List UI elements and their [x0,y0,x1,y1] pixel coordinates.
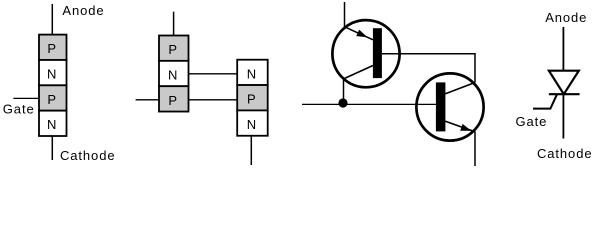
wire: Q1 collector down to junction [343,78,345,103]
wire: gate lead into lower P of PNP stack [136,99,159,101]
wire: anode lead of symbol [562,27,564,71]
wire: cathode lead of NPN stack [250,136,252,165]
wire: Q1 collector diagonal [344,66,374,79]
svg-text:Anode: Anode [545,10,587,25]
N layer of PNP stack [159,61,189,86]
thyristor triangle [549,71,579,95]
wire: Q2 collector diagonal up to Q1 base [445,83,475,94]
wire: anode lead of PNPN stack [51,4,53,35]
wire: Q1 base to Q2 collector (right and down) [382,54,475,83]
svg-text:P: P [168,42,178,57]
svg-text:N: N [168,67,178,82]
svg-text:Gate: Gate [3,102,35,117]
svg-text:P: P [47,41,57,56]
wire: gate rail to Q2 base [302,103,436,105]
transistor Q1 (PNP) circle [332,20,399,87]
junction dot (gate node) [338,98,347,107]
N layer bottom of NPN stack [237,110,268,135]
N layer of PNPN stack [39,60,67,85]
wire: cathode lead of PNPN stack [51,136,53,160]
wire: gate lead of symbol [533,94,557,108]
transistor Q2 (NPN) circle [416,73,483,140]
svg-text:Anode: Anode [62,3,104,18]
P layer top of PNP stack [159,36,189,61]
svg-text:Cathode: Cathode [60,148,115,163]
svg-text:N: N [47,117,57,132]
Q1 emitter arrowhead (points into base bar) [356,30,367,38]
wire: cathode lead of symbol [562,94,564,138]
P layer bottom of PNP stack [159,86,189,111]
wire: Q2 emitter lead (cathode, down) [474,132,476,167]
N layer top of NPN stack [237,60,268,85]
P layer (anode) of PNPN stack [39,35,67,60]
svg-text:P: P [168,93,178,108]
wire: gate lead of PNPN stack [13,97,39,99]
N layer (cathode) of PNPN stack [39,111,67,136]
Q2 emitter arrowhead (points outward) [460,124,471,131]
wire: Q1 emitter diagonal [345,27,374,40]
P layer of NPN stack [237,85,268,110]
transistor Q1 base bar [373,28,382,78]
wire: N-N link between stacks [189,73,238,75]
svg-text:Cathode: Cathode [537,146,592,161]
thyristor cathode bar [549,93,580,95]
svg-text:N: N [47,67,57,82]
svg-text:P: P [247,92,257,107]
wire: P-P link between stacks [189,99,238,101]
wire: Q1 emitter lead (anode, up) [344,2,346,28]
transistor Q2 base bar [436,82,446,131]
svg-text:N: N [247,117,257,132]
wire: anode lead of PNP stack [173,12,175,36]
svg-text:Gate: Gate [516,114,548,129]
wire: Q2 emitter diagonal [445,121,475,132]
svg-text:P: P [47,92,57,107]
svg-text:N: N [247,66,257,81]
P layer (gate) of PNPN stack [39,85,67,110]
